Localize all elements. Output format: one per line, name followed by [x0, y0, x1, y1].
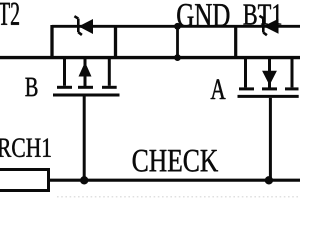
wire top rail (BT2 to BT1 line) — [52, 25, 300, 28]
wire right drop vertical — [234, 26, 237, 57]
wire bottom CHECK net — [48, 179, 300, 182]
label GND — [177, 4, 229, 27]
wire left loop left vertical — [50, 25, 53, 58]
wire left loop right vertical — [114, 26, 117, 57]
node GND bus junction dot — [174, 54, 181, 61]
label RCH1 — [0, 138, 51, 157]
label BT1 — [243, 4, 281, 24]
wire MOSFET A gate lead — [269, 98, 272, 180]
transistor MOSFET A — [238, 58, 299, 181]
zener diode at BT1 — [259, 16, 278, 35]
resistor RCH1 — [0, 170, 49, 191]
MOSFET B bulk arrow (up) — [79, 63, 90, 76]
node CHECK left junction dot — [80, 176, 88, 184]
wire GND junction vertical — [176, 26, 179, 57]
node CHECK right junction dot — [265, 176, 273, 184]
label BT2 — [0, 3, 19, 25]
label A (MOSFET A) — [211, 79, 226, 99]
wire GND bus rail — [0, 56, 300, 59]
zener diode across MOSFET B — [74, 16, 92, 35]
scan noise faint line — [57, 196, 300, 198]
wire MOSFET B gate lead — [83, 97, 86, 181]
MOSFET A bulk arrow (down) — [263, 71, 276, 84]
node GND top junction dot — [174, 23, 181, 30]
label B (MOSFET B) — [25, 78, 37, 96]
transistor MOSFET B — [53, 58, 120, 181]
label CHECK — [133, 150, 218, 172]
